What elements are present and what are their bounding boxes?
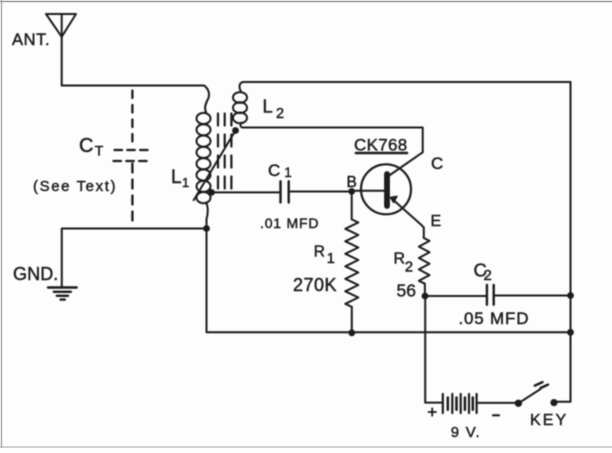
resistor R1 (345, 191, 358, 332)
C2 label (474, 260, 492, 285)
svg-text:1: 1 (327, 251, 335, 267)
node: C2/right-rail dot (567, 292, 574, 299)
R1 label (314, 243, 335, 267)
L2 label (263, 96, 285, 122)
capacitor C2 (487, 285, 494, 305)
capacitor CT (dashed trimmer) (114, 91, 151, 221)
C1 label (268, 161, 292, 180)
svg-text:2: 2 (276, 106, 284, 122)
node: L1 tap dot (208, 189, 215, 196)
svg-text:2: 2 (484, 267, 492, 284)
battery 9V (443, 394, 519, 413)
transformer core (218, 114, 231, 192)
wire: L2 bottom to collector bend (244, 128, 423, 153)
wire: R2 junction to C2 (425, 295, 487, 297)
CT value label (79, 135, 104, 159)
svg-text:B: B (347, 174, 357, 191)
resistor R2 (419, 225, 430, 296)
node: R2 bottom junction dot (422, 293, 429, 300)
battery - label (493, 414, 499, 416)
L1 label (171, 167, 189, 190)
svg-text:E: E (431, 213, 442, 230)
svg-text:C: C (79, 135, 93, 157)
wire: L1 bottom junction to ground (62, 229, 207, 287)
antenna ANT (46, 14, 76, 86)
svg-text:T: T (95, 143, 104, 159)
node: R1 bottom dot (348, 329, 355, 336)
svg-text:.05 MFD: .05 MFD (459, 309, 530, 328)
svg-text:KEY: KEY (530, 412, 568, 429)
node B dot (348, 188, 355, 195)
wire: R2 junction down to battery (425, 296, 441, 403)
inductor L2 (233, 82, 247, 128)
svg-text:56: 56 (397, 281, 416, 301)
svg-text:2: 2 (405, 258, 413, 275)
svg-text:(See Text): (See Text) (33, 178, 117, 195)
ground symbol (48, 288, 77, 300)
svg-text:270K: 270K (293, 275, 337, 295)
tap diagonal line through L1 (194, 131, 236, 201)
wire: C2 to right rail (494, 295, 571, 297)
svg-text:R: R (394, 251, 406, 268)
node: tap junction dot at L2 bottom (232, 127, 239, 134)
svg-text:CK768: CK768 (354, 136, 407, 155)
CK768 label (354, 136, 407, 155)
CK768 underline (356, 152, 407, 155)
switch KEY (515, 382, 558, 407)
capacitor C1 (281, 181, 289, 202)
wire: top rail from L2 top to right rail (244, 81, 571, 83)
inductor L1 (197, 86, 211, 229)
wire: L1 bottom down + bottom rail (207, 229, 571, 333)
svg-text:C: C (431, 154, 443, 173)
svg-text:C: C (268, 161, 280, 180)
transistor Q1 CK768 (352, 152, 423, 225)
svg-text:9 V.: 9 V. (451, 424, 481, 441)
svg-text:1: 1 (284, 165, 292, 180)
R2 label (394, 251, 414, 276)
svg-text:GND.: GND. (13, 264, 58, 284)
node: bottom rail / right rail dot (567, 329, 574, 336)
battery + label (429, 408, 437, 416)
svg-text:R: R (314, 243, 325, 260)
svg-text:L: L (263, 96, 273, 117)
wire: L1 tap to C1 (212, 191, 281, 193)
wire: antenna to L1 top (62, 85, 204, 87)
node: L1-GND junction dot (203, 225, 210, 232)
wire: C1 to base node (289, 191, 352, 193)
svg-text:L: L (171, 167, 182, 188)
wire: right rail (554, 82, 570, 402)
svg-text:.01 MFD: .01 MFD (260, 215, 319, 231)
svg-text:1: 1 (182, 175, 189, 190)
svg-text:ANT.: ANT. (12, 31, 50, 49)
